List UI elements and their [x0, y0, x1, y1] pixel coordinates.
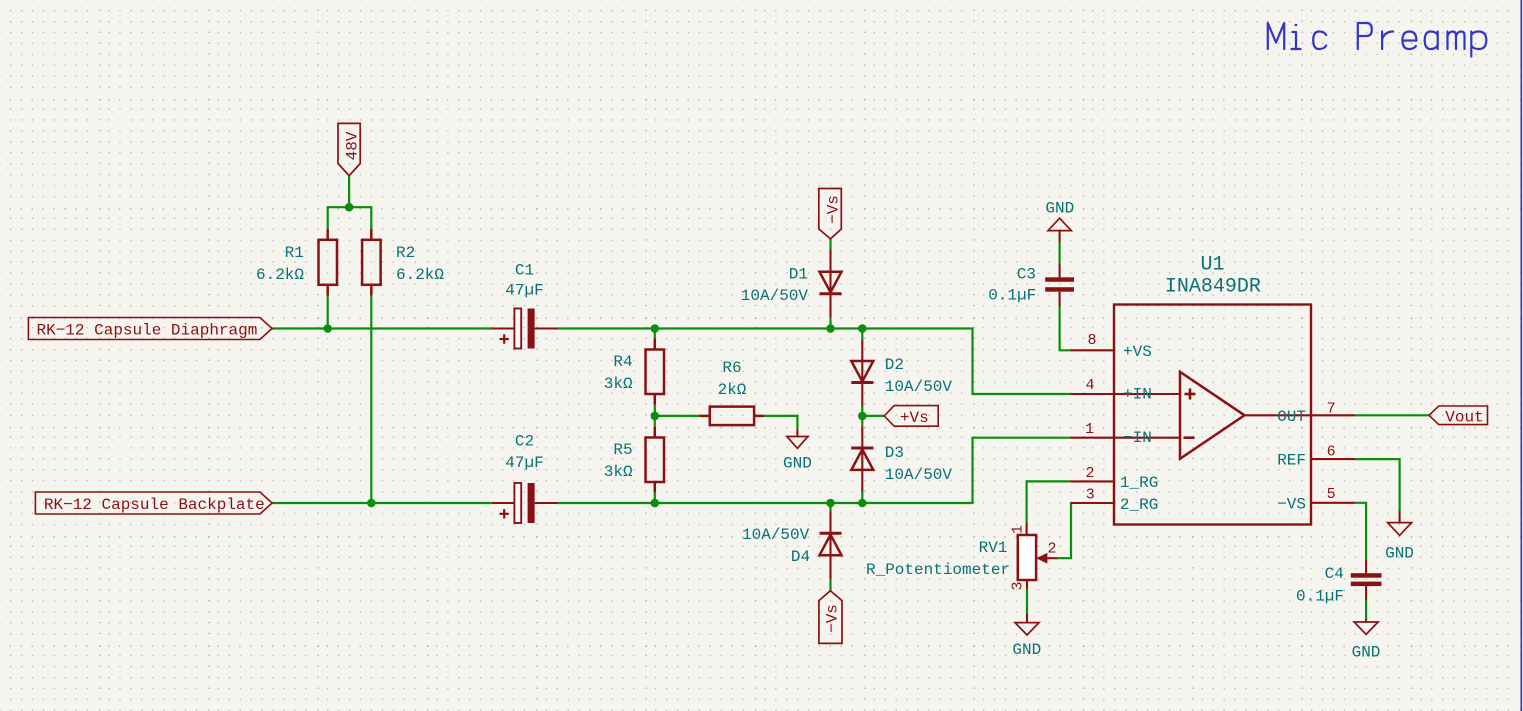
wire R4 bottom stub [654, 405, 656, 416]
junction D4 top [826, 499, 835, 508]
diode D4 [820, 512, 842, 580]
wire R6 to GND [764, 416, 797, 430]
svg-text:REF: REF [1277, 452, 1306, 470]
wire C4 to GND [1365, 600, 1367, 619]
svg-text:2kΩ: 2kΩ [718, 381, 747, 399]
junction R5 bottom [651, 499, 660, 508]
wire D2 top stub [861, 329, 863, 340]
diode D1 [820, 250, 842, 317]
pin 5 line [1311, 502, 1355, 504]
capacitor C1 [492, 309, 558, 349]
svg-text:1: 1 [1085, 421, 1094, 438]
svg-text:2_RG: 2_RG [1120, 496, 1158, 514]
svg-text:D2: D2 [885, 356, 904, 374]
resistor R2 [362, 229, 381, 296]
diode D3 [851, 426, 873, 492]
hierarchical label RK-12 Capsule Backplate box [35, 492, 272, 514]
wire backplate net left [272, 502, 493, 504]
pin 2 line [1070, 480, 1114, 482]
svg-text:−VS: −VS [1277, 495, 1306, 513]
svg-text:3: 3 [1010, 581, 1027, 590]
svg-text:RK−12 Capsule Diaphragm: RK−12 Capsule Diaphragm [37, 322, 258, 340]
svg-text:−Vs: −Vs [825, 195, 843, 224]
svg-text:4: 4 [1086, 377, 1095, 394]
svg-text:10A/50V: 10A/50V [741, 287, 809, 305]
svg-text:47µF: 47µF [505, 282, 543, 300]
pin 8 line [1070, 349, 1114, 351]
svg-text:+VS: +VS [1123, 343, 1152, 361]
capacitor C4 [1351, 560, 1382, 600]
pin 4 line [1070, 393, 1180, 395]
svg-text:R5: R5 [613, 441, 632, 459]
svg-text:D3: D3 [885, 444, 904, 462]
wire pin5 -VS to C4 [1355, 503, 1366, 560]
wire diaphragm net left [272, 327, 493, 329]
svg-text:RV1: RV1 [979, 539, 1008, 557]
op-amp U1 triangle [1180, 372, 1245, 459]
capacitor C3 [1045, 264, 1074, 307]
junction D2 top [858, 324, 867, 333]
svg-text:INA849DR: INA849DR [1165, 276, 1261, 299]
svg-text:R1: R1 [285, 244, 304, 262]
svg-text:1_RG: 1_RG [1120, 474, 1158, 492]
wire D3 top stub [861, 416, 863, 427]
gnd symbol pot [1015, 614, 1039, 636]
svg-text:D1: D1 [789, 266, 808, 284]
wire 48V stub [348, 176, 350, 208]
wire backplate net right [557, 438, 1070, 503]
wire pot bottom to GND [1026, 589, 1028, 614]
svg-text:3kΩ: 3kΩ [604, 375, 633, 393]
svg-text:OUT: OUT [1277, 408, 1306, 426]
svg-text:10A/50V: 10A/50V [885, 378, 953, 396]
wire pot wiper to pin3 U1 [1058, 503, 1071, 558]
wire R2 top [370, 206, 372, 229]
wire node to R6 [655, 415, 700, 417]
diode D2 [851, 340, 873, 407]
svg-text:C1: C1 [515, 262, 534, 280]
svg-text:−Vs: −Vs [824, 604, 842, 633]
svg-text:C2: C2 [515, 433, 534, 451]
global label Vout box [1429, 406, 1488, 425]
svg-text:0.1µF: 0.1µF [1296, 588, 1344, 606]
wire R1-R2 top bus [328, 206, 372, 208]
resistor R1 [319, 229, 338, 296]
svg-text:−IN: −IN [1123, 429, 1152, 447]
svg-text:U1: U1 [1201, 254, 1225, 277]
gnd symbol mid (R6) [787, 430, 808, 449]
title Mic Preamp [1268, 23, 1487, 57]
svg-text:+Vs: +Vs [900, 409, 929, 427]
junction diaphragm-R1 [323, 324, 332, 333]
svg-text:48V: 48V [343, 131, 361, 160]
svg-text:3: 3 [1086, 487, 1095, 504]
junction D1 bottom [826, 324, 835, 333]
svg-text:0.1µF: 0.1µF [988, 287, 1036, 305]
wire +Vs stub [862, 415, 884, 417]
svg-text:RK−12 Capsule Backplate: RK−12 Capsule Backplate [44, 496, 265, 514]
wire D2 bottom stub [861, 406, 863, 416]
svg-text:10A/50V: 10A/50V [742, 526, 810, 544]
svg-text:1: 1 [1010, 525, 1027, 534]
pin 7 line [1245, 414, 1356, 416]
wire D4 top stub [829, 503, 831, 512]
svg-text:D4: D4 [791, 548, 810, 566]
pin 3 line [1070, 502, 1114, 504]
svg-text:C3: C3 [1017, 266, 1036, 284]
svg-text:6.2kΩ: 6.2kΩ [396, 266, 444, 284]
junction 48V node [345, 203, 354, 212]
wire R2 bottom long [370, 296, 372, 504]
resistor R6 [700, 407, 765, 426]
svg-text:GND: GND [1045, 200, 1074, 218]
wire GND to C3 [1058, 242, 1060, 264]
op-amp plus marker [1185, 389, 1196, 400]
junction R4-R5-R6 node [651, 412, 660, 421]
wire D1 bottom stub [829, 317, 831, 329]
svg-text:C4: C4 [1325, 565, 1344, 583]
svg-text:10A/50V: 10A/50V [885, 466, 953, 484]
wire D1 top stub [829, 239, 831, 250]
junction D3 bottom [858, 499, 867, 508]
svg-text:+IN: +IN [1123, 386, 1152, 404]
svg-text:R6: R6 [722, 359, 741, 377]
wire D4 bottom stub [829, 579, 831, 591]
power symbol 48V [338, 123, 360, 175]
op-amp minus marker [1184, 436, 1195, 439]
sheet border [1520, 0, 1522, 711]
junction +Vs node [858, 412, 867, 421]
op-amp U1 body [1114, 305, 1311, 525]
wire R5 bottom stub [654, 492, 656, 503]
svg-text:GND: GND [783, 455, 812, 473]
power symbol -Vs bottom [819, 591, 842, 644]
svg-text:8: 8 [1088, 332, 1097, 349]
wire pin6 REF to GND [1355, 459, 1400, 511]
capacitor C2 [492, 483, 558, 523]
svg-text:Vout: Vout [1445, 408, 1483, 426]
wire R1 bottom [327, 296, 329, 329]
hierarchical label RK-12 Capsule Diaphragm box [28, 318, 272, 340]
svg-text:7: 7 [1327, 401, 1336, 418]
svg-text:GND: GND [1012, 641, 1041, 659]
gnd symbol C4 [1354, 619, 1378, 634]
svg-text:GND: GND [1385, 545, 1414, 563]
global label +Vs box [884, 406, 938, 427]
power symbol -Vs top [819, 189, 842, 239]
svg-text:R4: R4 [613, 353, 632, 371]
pin 1 line [1070, 437, 1180, 439]
junction R4 top [651, 324, 660, 333]
resistor R5 [646, 427, 665, 493]
svg-text:3kΩ: 3kΩ [604, 463, 633, 481]
gnd symbol top (above C3) [1048, 218, 1071, 242]
wire R5 top stub [654, 416, 656, 427]
svg-text:5: 5 [1327, 486, 1336, 503]
wire D3 bottom stub [861, 492, 863, 503]
wire pot pin1 to pin2 U1 [1027, 481, 1071, 523]
svg-text:6.2kΩ: 6.2kΩ [256, 266, 304, 284]
svg-text:R2: R2 [396, 244, 415, 262]
wire C3 to pin8 [1060, 307, 1071, 351]
gnd symbol pin6 [1388, 511, 1412, 535]
pin 6 line [1311, 458, 1355, 460]
resistor R4 [646, 338, 665, 405]
wire R1 top [327, 206, 329, 229]
svg-text:R_Potentiometer: R_Potentiometer [866, 561, 1010, 579]
junction backplate-R2 [367, 499, 376, 508]
svg-text:47µF: 47µF [505, 454, 543, 472]
svg-text:2: 2 [1048, 541, 1057, 558]
wire pin7 to Vout [1355, 414, 1429, 416]
svg-text:6: 6 [1327, 444, 1336, 461]
svg-text:GND: GND [1352, 644, 1381, 662]
wire R4 top stub [654, 329, 656, 339]
wire diaphragm net right [557, 329, 1070, 395]
svg-text:2: 2 [1086, 465, 1095, 482]
potentiometer RV1 [1018, 523, 1058, 589]
